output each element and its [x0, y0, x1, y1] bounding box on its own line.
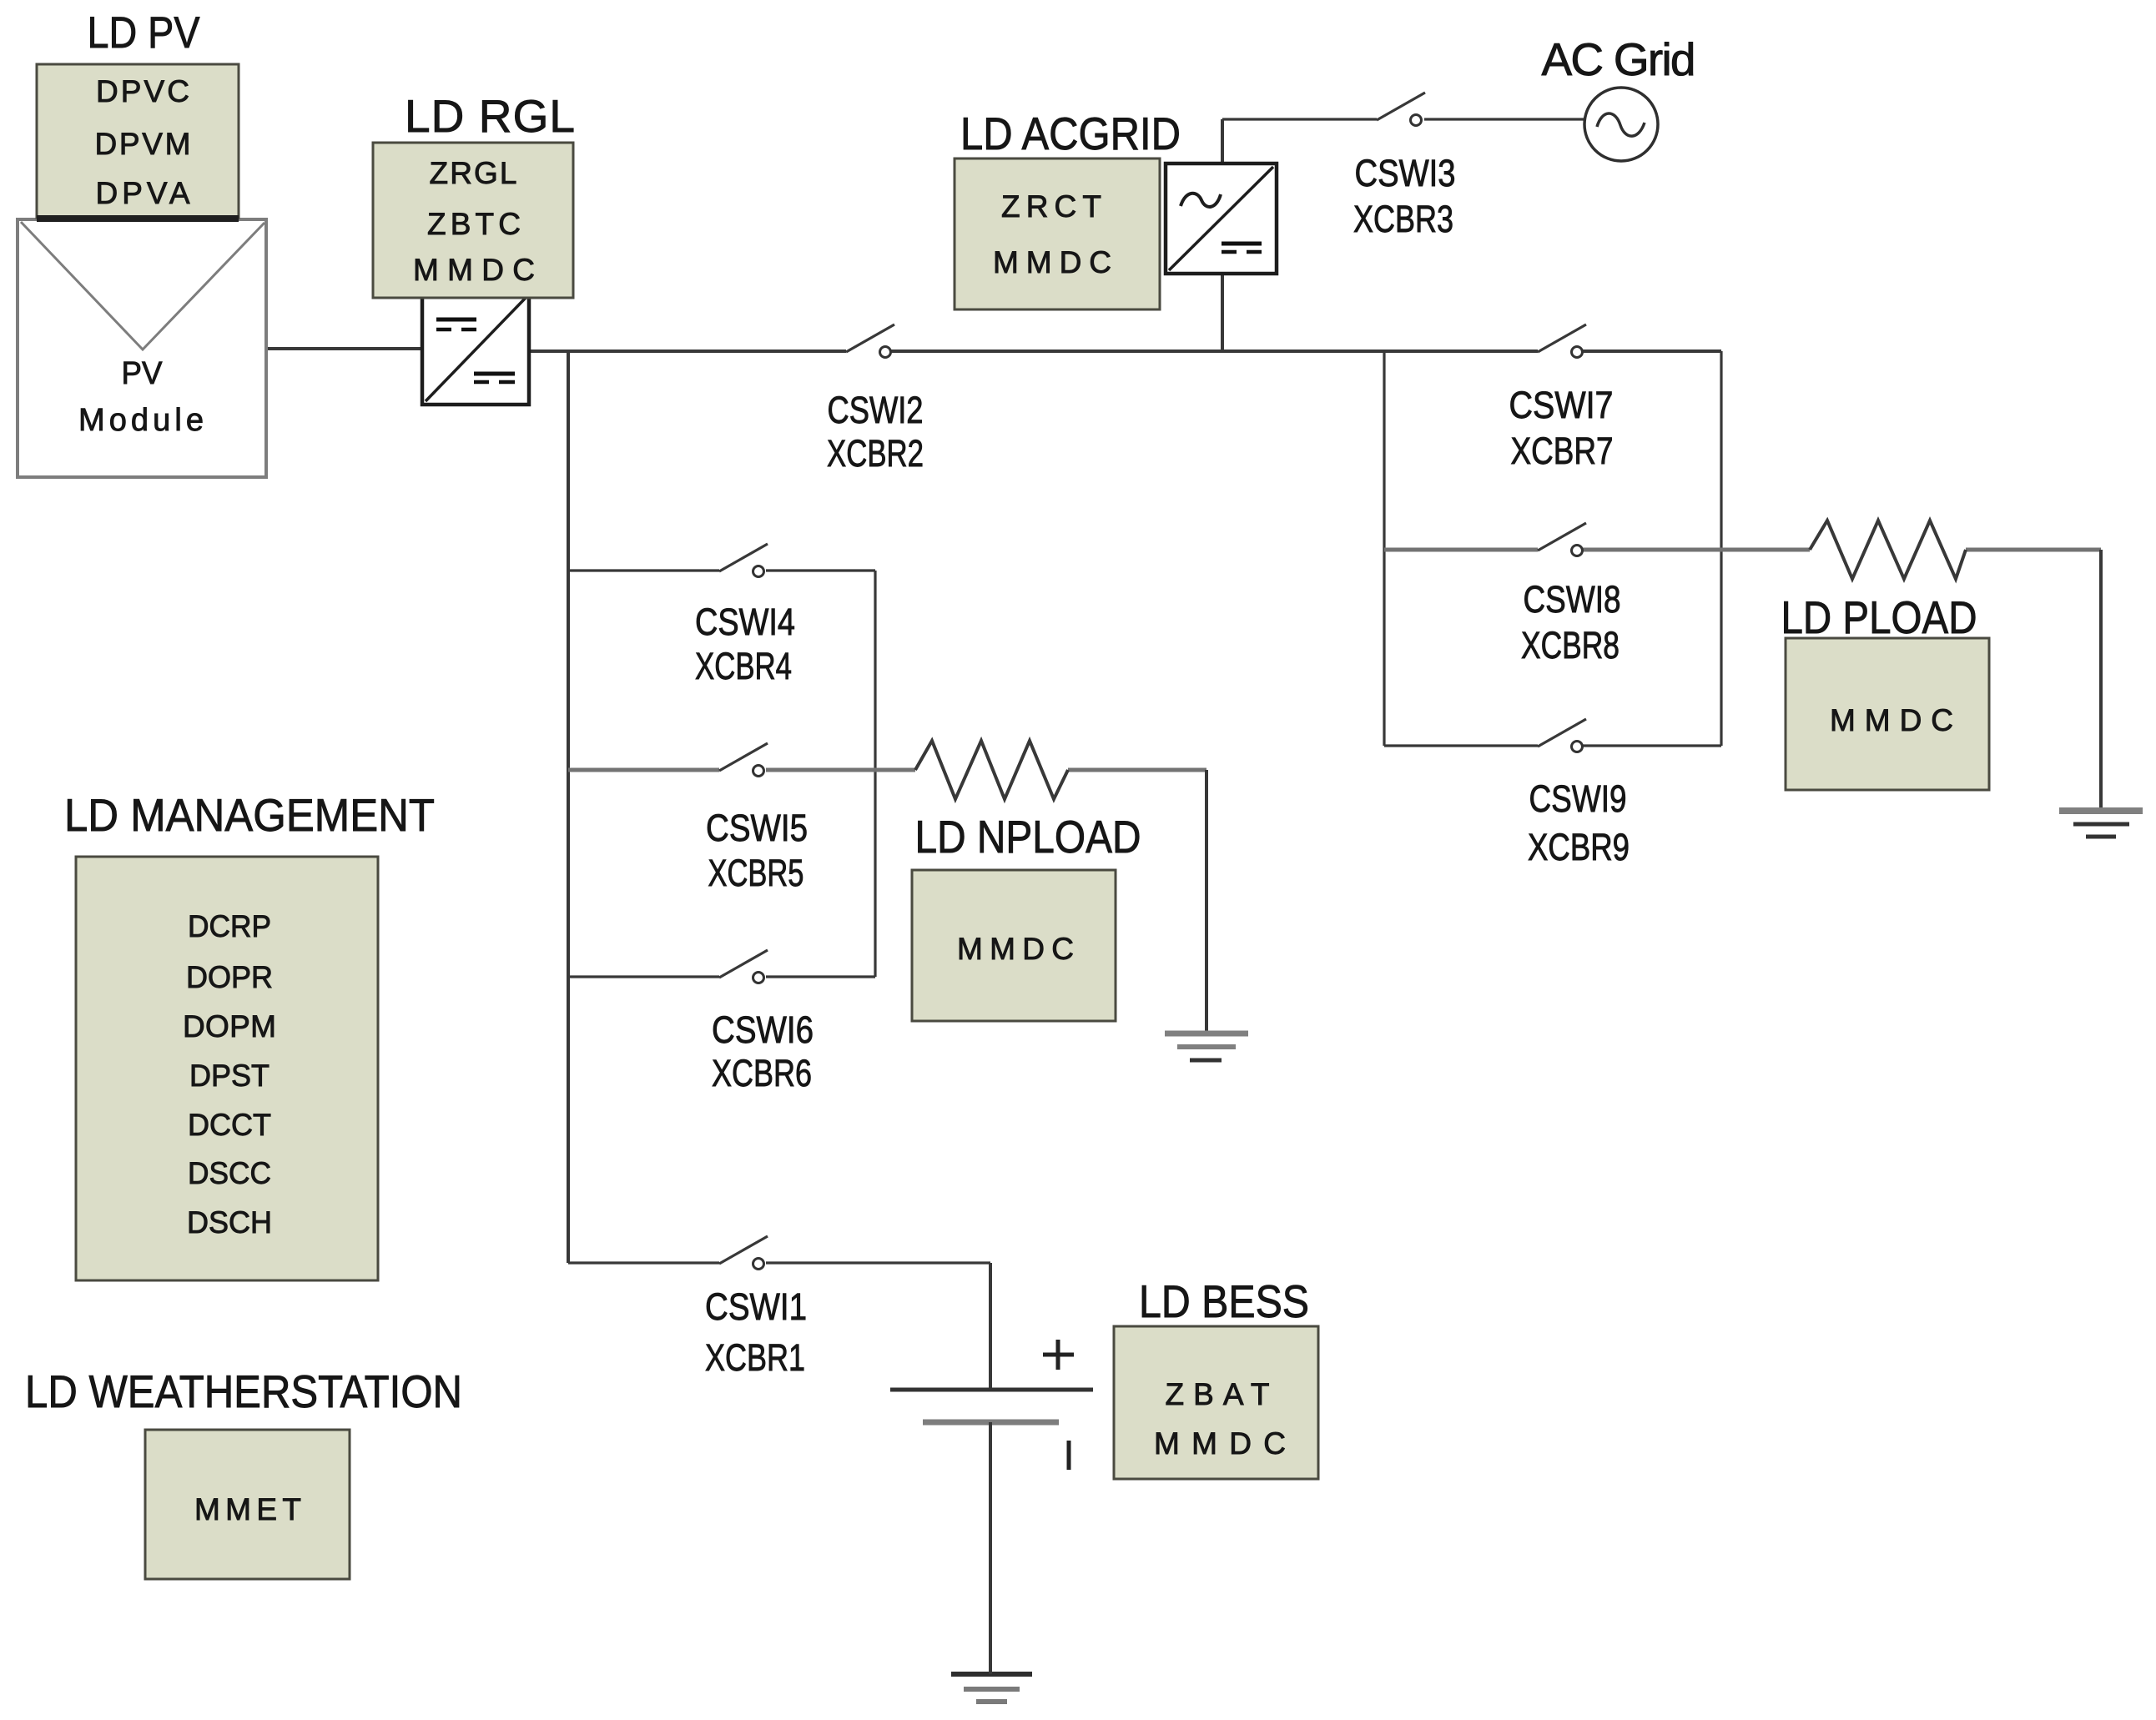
svg-text:LD ACGRID: LD ACGRID	[960, 108, 1181, 159]
svg-text:DPVM: DPVM	[95, 127, 191, 161]
svg-text:XCBR3: XCBR3	[1353, 198, 1453, 240]
svg-text:MMET: MMET	[194, 1492, 301, 1526]
svg-text:XCBR5: XCBR5	[708, 852, 804, 894]
svg-text:XCBR1: XCBR1	[705, 1336, 805, 1379]
svg-text:DSCC: DSCC	[188, 1156, 271, 1190]
svg-text:CSWI7: CSWI7	[1509, 384, 1614, 426]
svg-text:DPST: DPST	[189, 1059, 269, 1093]
svg-text:DOPR: DOPR	[186, 960, 273, 994]
svg-text:DCCT: DCCT	[188, 1108, 271, 1142]
svg-text:XCBR6: XCBR6	[712, 1052, 812, 1094]
svg-text:LD WEATHERSTATION: LD WEATHERSTATION	[25, 1365, 462, 1417]
svg-text:LD NPLOAD: LD NPLOAD	[915, 811, 1141, 863]
svg-text:DOPM: DOPM	[183, 1009, 276, 1044]
svg-text:LD BESS: LD BESS	[1139, 1275, 1309, 1327]
svg-text:LD PLOAD: LD PLOAD	[1781, 591, 1977, 643]
svg-text:AC Grid: AC Grid	[1542, 33, 1696, 85]
svg-text:CSWI5: CSWI5	[706, 807, 808, 849]
svg-text:LD PV: LD PV	[88, 8, 201, 58]
svg-text:DSCH: DSCH	[187, 1205, 272, 1240]
svg-text:XCBR7: XCBR7	[1511, 430, 1614, 472]
svg-text:XCBR8: XCBR8	[1521, 624, 1620, 666]
svg-text:PV: PV	[122, 356, 164, 391]
svg-text:DCRP: DCRP	[188, 909, 271, 943]
svg-text:XCBR9: XCBR9	[1528, 826, 1630, 868]
svg-text:CSWI6: CSWI6	[712, 1008, 814, 1051]
svg-text:CSWI1: CSWI1	[705, 1285, 807, 1328]
svg-text:CSWI9: CSWI9	[1529, 777, 1627, 820]
svg-text:XCBR2: XCBR2	[827, 432, 924, 475]
svg-text:CSWI2: CSWI2	[828, 389, 924, 431]
svg-text:CSWI8: CSWI8	[1524, 578, 1621, 621]
svg-text:CSWI4: CSWI4	[695, 601, 795, 643]
svg-text:XCBR4: XCBR4	[695, 645, 792, 687]
svg-text:LD MANAGEMENT: LD MANAGEMENT	[64, 789, 435, 841]
svg-text:CSWI3: CSWI3	[1355, 152, 1456, 194]
